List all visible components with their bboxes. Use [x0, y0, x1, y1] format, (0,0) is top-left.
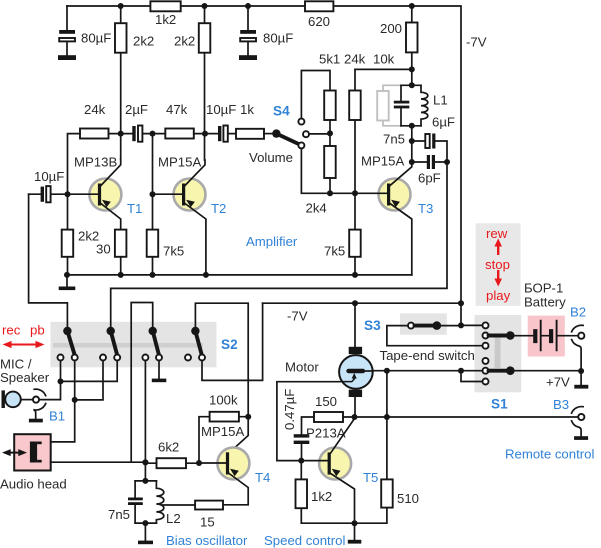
svg-text:Speaker: Speaker — [0, 370, 50, 385]
node dot T5 emitter ground — [352, 520, 358, 526]
ground below 80uF left — [58, 55, 76, 60]
svg-text:200: 200 — [380, 21, 402, 36]
inductor L1 — [421, 85, 428, 126]
svg-text:2k2: 2k2 — [133, 34, 154, 49]
node dot T1 base — [65, 191, 71, 197]
switch S4 wiper — [272, 129, 280, 137]
wire 2k4 to base line — [329, 178, 331, 193]
ground on rail — [66, 275, 68, 287]
wire S2 sec4 right to -7V — [202, 303, 263, 380]
S1 mechanical link bar — [495, 337, 501, 368]
svg-text:1k2: 1k2 — [155, 12, 176, 27]
node dot top rail at 80uF — [245, 3, 251, 9]
svg-text:MP15A: MP15A — [158, 155, 201, 170]
wire S2 sec3 right to ground — [158, 361, 160, 379]
svg-text:-7V: -7V — [287, 309, 308, 324]
resistor 24k input — [80, 129, 109, 139]
svg-text:T1: T1 — [127, 201, 142, 216]
tank L2 — [135, 481, 156, 523]
node dot 6pF junction right — [444, 159, 450, 165]
switch S2 pivot 3 — [149, 327, 157, 335]
svg-text:Motor: Motor — [285, 360, 319, 375]
svg-text:2µF: 2µF — [125, 102, 148, 117]
switch S2 pivot 1 — [63, 327, 71, 335]
node dot 200 bottom — [409, 66, 415, 72]
node dot remote at 510 — [384, 414, 390, 420]
resistor 7k5 T2 — [152, 194, 154, 275]
node dot tank top — [409, 82, 415, 88]
svg-text:pb: pb — [30, 323, 45, 338]
wire motor junction down to remote line — [386, 371, 388, 417]
svg-text:6µF: 6µF — [432, 115, 455, 130]
svg-text:24k: 24k — [344, 52, 366, 67]
transistor T1 — [89, 179, 121, 211]
switch S2 contacts 1 — [58, 355, 64, 361]
svg-text:0.47µF: 0.47µF — [282, 389, 297, 430]
svg-text:10µF: 10µF — [34, 169, 64, 184]
node dot tank bottom — [409, 123, 415, 129]
svg-text:80µF: 80µF — [81, 31, 111, 46]
svg-text:T3: T3 — [418, 201, 433, 216]
node dot rail 2k2 — [64, 272, 70, 278]
node dot 2uF 47k junction — [150, 131, 156, 137]
capacitor 80uF right — [247, 6, 249, 55]
node dot top rail at 2k2 — [118, 3, 124, 9]
resistor 2k2 T1 base — [67, 194, 69, 275]
wire to S1 contact 6 — [461, 371, 483, 382]
switch S1 lever 7V — [489, 369, 507, 373]
wire S3 left to S1 contact 3 — [387, 326, 483, 346]
tank L2 top dot — [142, 478, 148, 484]
svg-text:Bias oscillator: Bias oscillator — [166, 533, 248, 548]
node dot remote at motor — [352, 414, 358, 420]
switch S2 pivot 2 — [107, 327, 115, 335]
wire S4 top contact to 5k1 — [301, 71, 330, 119]
resistor 1k2 T5 — [300, 461, 302, 524]
resistor 24k bias — [349, 91, 361, 121]
svg-text:S3: S3 — [364, 318, 381, 333]
switch S2 lever 2 — [111, 331, 117, 354]
transistor T5 — [319, 448, 351, 480]
gray panel S2 — [51, 322, 217, 368]
svg-text:15: 15 — [200, 515, 215, 530]
switch S4 contacts — [298, 119, 304, 125]
switch S2 pivot 4 — [191, 327, 199, 335]
svg-text:Amplifier: Amplifier — [246, 234, 298, 249]
node dot 6uF junction — [409, 138, 415, 144]
ground below 80uF right — [239, 55, 257, 60]
node dot base line 2k4 — [327, 190, 333, 196]
svg-text:S2: S2 — [221, 337, 238, 352]
svg-text:2k2: 2k2 — [174, 34, 195, 49]
motor — [354, 303, 356, 417]
battery pink box — [528, 316, 565, 357]
svg-text:47k: 47k — [166, 102, 188, 117]
node dot top rail at 200 — [409, 3, 415, 9]
switch S1 lever battery — [489, 334, 507, 338]
wire S2 sec1 left to mic and link — [39, 361, 60, 400]
wire 24k column top — [354, 69, 356, 193]
node dot T5 base — [298, 458, 304, 464]
ground below L2 — [144, 523, 146, 541]
svg-text:S4: S4 — [273, 104, 290, 119]
switch S2 lever 4 — [195, 331, 201, 354]
svg-text:L1: L1 — [433, 93, 448, 108]
wire S2 sec4 pivot to T4 — [195, 303, 248, 453]
svg-text:30: 30 — [96, 242, 111, 257]
capacitor 7n5 L2 — [134, 481, 136, 523]
wire audio head bottom — [51, 461, 146, 463]
resistor 100k — [210, 412, 239, 422]
svg-text:+7V: +7V — [546, 375, 570, 390]
svg-text:7k5: 7k5 — [163, 244, 184, 259]
wire -7V mid rail — [263, 302, 461, 304]
capacitor 0.47uF — [302, 417, 315, 461]
node dot rail 7k5 — [150, 272, 156, 278]
node dot 6k2 left — [142, 459, 148, 465]
svg-text:7n5: 7n5 — [108, 507, 130, 522]
svg-text:T2: T2 — [211, 201, 226, 216]
node dot rail 7k5 T3 — [352, 272, 358, 278]
resistor 10k grayed out — [383, 85, 401, 126]
node dot motor wire x461 — [458, 368, 464, 374]
wire 5k1 to 2k4 — [329, 120, 331, 146]
resistor 5k1 — [324, 91, 336, 121]
svg-text:7n5: 7n5 — [383, 132, 405, 147]
svg-text:T5: T5 — [363, 470, 378, 485]
audio head — [14, 434, 51, 470]
svg-text:B3: B3 — [553, 397, 569, 412]
node dot S3 to rail — [458, 322, 464, 328]
jack B2 — [578, 333, 584, 339]
svg-text:1k2: 1k2 — [311, 489, 332, 504]
wire 2uF junction to T2 base — [152, 134, 154, 195]
svg-text:100k: 100k — [209, 393, 238, 408]
svg-text:-7V: -7V — [466, 35, 487, 50]
wire S2 sec1 right to audio head top — [51, 361, 75, 442]
node dot 6pF junction left — [409, 159, 415, 165]
capacitor 7n5 tank — [400, 85, 402, 126]
gray panel S3 — [400, 313, 447, 334]
node dot base line 24k — [352, 190, 358, 196]
svg-text:1k: 1k — [240, 102, 254, 117]
wire main line below tank — [411, 126, 413, 162]
svg-text:БОР-1: БОР-1 — [524, 281, 563, 296]
capacitor 6pF — [412, 161, 447, 163]
svg-text:MP15A: MP15A — [201, 424, 244, 439]
wire link sec1L sec2R — [61, 361, 118, 382]
wire T3 base line — [301, 148, 387, 193]
black double arrow audio head — [8, 452, 21, 454]
tank bottom wire — [401, 125, 421, 127]
resistor 1k2 top — [150, 1, 180, 11]
wire motor wiper to T5 base — [277, 382, 340, 461]
switch S2 contacts 2 — [100, 355, 106, 361]
wire S2 sec3 left long drop — [144, 361, 146, 481]
svg-text:L2: L2 — [166, 511, 181, 526]
svg-text:MP15A: MP15A — [361, 154, 404, 169]
svg-text:T4: T4 — [255, 470, 270, 485]
switch S1 contacts — [483, 322, 489, 328]
node dot top rail at 2k2 second — [202, 3, 208, 9]
svg-text:510: 510 — [397, 491, 419, 506]
node dot 5k1 2k4 junction — [327, 130, 333, 136]
gray panel rew/stop/play — [476, 223, 521, 306]
jack B1 — [33, 397, 39, 403]
switch S2 contacts 4 — [185, 355, 191, 361]
resistor 200 — [411, 6, 413, 85]
svg-text:Tape-end switch: Tape-end switch — [380, 348, 475, 363]
wire link sec1R sec2L — [75, 361, 103, 400]
tank L2 bottom dot — [142, 520, 148, 526]
switch S2 lever 1 — [67, 331, 74, 354]
svg-text:2k4: 2k4 — [306, 201, 327, 216]
svg-text:Remote control: Remote control — [505, 447, 594, 462]
capacitor 6uF — [412, 141, 447, 162]
node dot 47k 10uF junction — [202, 131, 208, 137]
wire remote line — [343, 416, 578, 418]
node dot T4 base — [196, 460, 202, 466]
wire motor right to S1 — [373, 370, 483, 372]
svg-text:Speed control: Speed control — [264, 533, 345, 548]
microphone speaker B1 — [2, 390, 5, 408]
svg-text:6pF: 6pF — [418, 171, 441, 186]
svg-text:24k: 24k — [84, 102, 106, 117]
tank circuit L1 top wire — [401, 84, 421, 86]
wire input to S2 — [29, 194, 68, 327]
svg-text:rec: rec — [2, 323, 21, 338]
wire feedback line to S2 — [111, 162, 447, 327]
node dot T2 base — [150, 191, 156, 197]
red double arrow rec pb — [9, 344, 37, 346]
node dot rail T2 emitter — [203, 272, 209, 278]
svg-text:5k1: 5k1 — [319, 52, 340, 67]
wire bias feed y70 — [355, 68, 412, 70]
svg-text:B1: B1 — [49, 409, 65, 424]
switch S2 contacts 3 — [142, 355, 148, 361]
node dot -7V at right rail — [458, 300, 464, 306]
resistor 2k4 — [324, 146, 336, 178]
svg-text:Volume: Volume — [249, 150, 293, 165]
svg-text:7k5: 7k5 — [324, 244, 345, 259]
wire +7V — [514, 370, 581, 372]
transistor T4 — [217, 447, 249, 479]
svg-text:10k: 10k — [373, 52, 395, 67]
node dot motor top — [352, 300, 358, 306]
svg-text:Battery: Battery — [524, 295, 566, 310]
svg-text:rew: rew — [486, 226, 508, 241]
switch S2 lever 3 — [153, 331, 159, 354]
svg-text:S1: S1 — [491, 397, 508, 412]
svg-text:6k2: 6k2 — [158, 440, 179, 455]
wire audio head bottom vertical to S2 sec3 pivot — [131, 303, 153, 463]
svg-text:10µF: 10µF — [206, 102, 236, 117]
resistor 620 — [305, 1, 333, 11]
S2 mechanical link bar — [53, 343, 203, 348]
wire top -7V rail — [67, 6, 461, 325]
transistor T2 — [174, 179, 206, 211]
ground below T5 — [354, 523, 356, 540]
node dot 100k right — [245, 414, 251, 420]
resistor 30 — [115, 230, 127, 257]
svg-text:play: play — [486, 288, 511, 303]
svg-text:MP13B: MP13B — [74, 155, 117, 170]
capacitor 80uF left — [66, 6, 68, 55]
svg-text:B2: B2 — [570, 305, 586, 320]
node dot 24k 2uF junction — [118, 131, 124, 137]
svg-text:Audio head: Audio head — [0, 477, 67, 492]
svg-text:stop: stop — [485, 257, 510, 272]
resistor 150 — [314, 412, 343, 422]
gray panel S1 — [475, 315, 522, 392]
node dot rail 30 — [118, 272, 124, 278]
inductor L2 — [156, 481, 163, 523]
battery BOP-1 — [514, 335, 578, 337]
svg-text:150: 150 — [315, 394, 337, 409]
svg-text:620: 620 — [308, 14, 330, 29]
resistor 510 — [301, 417, 387, 523]
resistor 2k2 second — [204, 6, 206, 160]
transistor T3 — [379, 179, 411, 211]
resistor 2k2 first — [120, 6, 122, 159]
node dot motor wire x387 — [384, 368, 390, 374]
svg-text:80µF: 80µF — [263, 31, 293, 46]
resistor 15 — [195, 501, 223, 510]
node dot head bottom junction — [142, 459, 148, 465]
jack B3 remote — [578, 414, 584, 420]
wire amplifier bottom rail — [67, 274, 412, 276]
resistor 7k5 for T3 — [354, 193, 356, 275]
wire S4 middle contact — [309, 133, 330, 135]
